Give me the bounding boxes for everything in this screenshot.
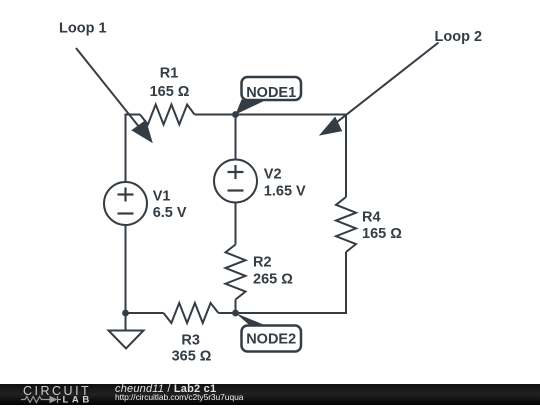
svg-text:NODE2: NODE2 [246,332,296,348]
wire left rail top [126,115,141,183]
label R3 [172,333,212,365]
V2 plus sign [228,165,244,179]
svg-text:NODE1: NODE1 [246,85,296,101]
svg-text:R3: R3 [181,333,200,349]
footer url text [115,393,243,402]
footer title text [115,384,216,395]
voltage source V2 [214,160,257,203]
NODE1 label box [242,77,302,101]
svg-text:1.65 V: 1.65 V [264,183,306,199]
ground [109,331,144,349]
svg-text:LAB: LAB [63,395,93,406]
footer bar [0,384,540,405]
svg-text:365 Ω: 365 Ω [172,349,212,365]
resistor R1 [140,105,195,125]
wire V2 to R2 [235,203,237,245]
wire top middle [195,114,236,116]
CircuitLab logo [0,384,100,405]
node dot NODE1 [232,111,239,118]
wire right rail bottom [236,252,347,313]
svg-text:Loop 1: Loop 1 [59,21,107,37]
label R2 [253,255,293,288]
label R1 [150,66,190,101]
NODE2 label box [242,326,302,352]
wire R2 to node2 [235,300,237,314]
label V1 [153,188,187,221]
resistor R3 [164,303,219,323]
label R4 [362,210,402,242]
svg-text:R4: R4 [362,210,381,226]
annotation Loop 2 [319,29,482,136]
resistor R2 [226,245,246,300]
svg-text:R1: R1 [160,66,179,82]
wire bottom left [126,312,164,314]
NODE1 callout wedge [236,100,268,115]
wire R3 to node2 [218,312,235,314]
svg-text:V2: V2 [264,166,282,182]
node dot ground junction [122,310,129,317]
voltage source V1 [104,182,147,225]
wire top right [236,115,347,198]
svg-text:V1: V1 [153,188,171,204]
svg-text:165 Ω: 165 Ω [362,226,402,242]
ground wire [125,313,127,331]
V1 minus sign [118,212,134,214]
V1 plus sign [118,188,134,202]
wire V1 bottom [125,225,127,313]
svg-text:265 Ω: 265 Ω [253,272,293,288]
V2 minus sign [228,189,244,191]
svg-text:165 Ω: 165 Ω [150,84,190,100]
svg-text:R2: R2 [253,255,272,271]
node dot NODE2 [232,310,239,317]
annotation Loop 1 [59,21,153,144]
wire V2 top [235,115,237,160]
NODE2 callout wedge [236,313,269,327]
svg-text:Loop 2: Loop 2 [435,29,483,45]
label V2 [264,166,306,199]
svg-text:6.5 V: 6.5 V [153,205,187,221]
resistor R4 [336,197,356,252]
